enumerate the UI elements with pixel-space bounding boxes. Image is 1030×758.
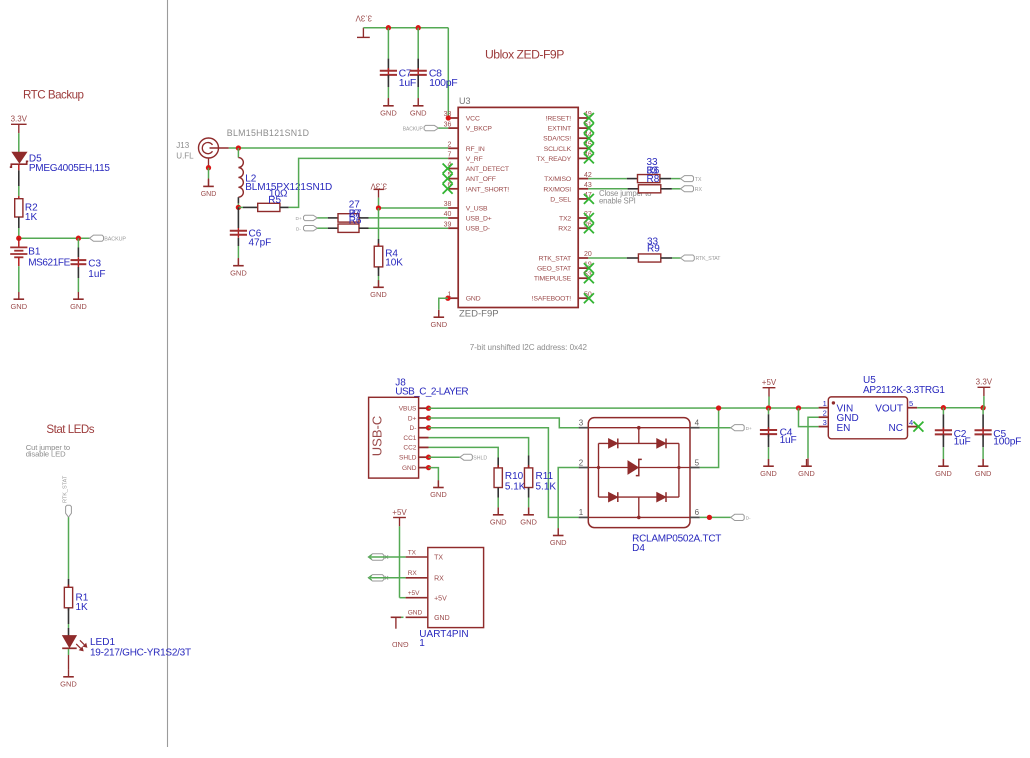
label C7 1uF bbox=[399, 67, 416, 88]
U5 pin 4 NC bbox=[889, 418, 924, 434]
svg-text:D+: D+ bbox=[746, 426, 752, 432]
diode D4b bbox=[657, 439, 666, 449]
svg-text:GND: GND bbox=[230, 268, 247, 277]
U3 pin 39 USB_D- bbox=[444, 221, 490, 232]
label RTK_STAT flag text bbox=[696, 256, 722, 262]
wire LED1 to GND bbox=[68, 649, 70, 670]
svg-text:RTC Backup: RTC Backup bbox=[23, 88, 84, 101]
svg-text:!SAFEBOOT!: !SAFEBOOT! bbox=[532, 296, 572, 303]
TVS diode D4 center bbox=[628, 459, 642, 475]
wire C3 to GND bbox=[77, 267, 79, 292]
inductor L2 bbox=[238, 158, 243, 198]
svg-text:USB_C_2-LAYER: USB_C_2-LAYER bbox=[395, 387, 468, 398]
junction top rail at C7 bbox=[386, 25, 391, 30]
U3 pin 2 RF_IN bbox=[447, 142, 484, 153]
label ZED-F9P bbox=[459, 308, 499, 319]
flag BACKUP (RTC) bbox=[90, 235, 104, 241]
ground under C3 bbox=[70, 292, 87, 311]
label RTK_STAT vertical flag text bbox=[63, 475, 69, 503]
svg-text:U.FL: U.FL bbox=[176, 151, 194, 160]
flag BACKUP (U3) bbox=[424, 125, 438, 130]
U3 pin 49 !RESET! bbox=[546, 111, 594, 123]
label 27 R7 R6 stack bbox=[349, 200, 362, 227]
UART pin TX bbox=[406, 549, 444, 561]
svg-text:USB_D-: USB_D- bbox=[466, 226, 490, 233]
junction RF_IN at L2 bbox=[236, 145, 241, 150]
svg-text:5.1K: 5.1K bbox=[536, 481, 557, 492]
svg-text:+5V: +5V bbox=[408, 590, 420, 597]
svg-text:1uF: 1uF bbox=[954, 437, 971, 448]
wire R10 to GND bbox=[497, 488, 499, 515]
svg-text:RX: RX bbox=[408, 570, 418, 577]
svg-text:ZED-F9P: ZED-F9P bbox=[459, 308, 499, 319]
svg-text:TX_READY: TX_READY bbox=[536, 156, 571, 163]
U3 pin 5 ANT_OFF bbox=[443, 172, 496, 184]
junction top rail at C8 bbox=[416, 25, 421, 30]
svg-text:LED1: LED1 bbox=[90, 637, 115, 648]
label SHLD flag text bbox=[473, 456, 487, 462]
junction VBUS at D4 bbox=[716, 405, 721, 410]
resistor R2 bbox=[15, 196, 23, 220]
U3 pin 7 V_RF bbox=[447, 152, 482, 163]
svg-text:J13: J13 bbox=[176, 141, 189, 150]
LED LED1 bbox=[62, 636, 87, 652]
J8 pin VBUS bbox=[399, 406, 431, 413]
svg-text:40: 40 bbox=[444, 211, 452, 218]
ground under B1 bbox=[10, 292, 27, 311]
label TX flag text bbox=[695, 177, 702, 183]
wire J13 shield to GND bbox=[208, 168, 210, 187]
UART pin +5V bbox=[406, 590, 447, 602]
wire RTK_STAT to R1 bbox=[68, 517, 70, 587]
U3 pin 53 TIMEPULSE bbox=[534, 271, 594, 283]
diode D4a bbox=[609, 439, 618, 449]
section title Stat LEDs bbox=[46, 423, 94, 436]
flag RTK_STAT (U3) bbox=[681, 255, 695, 261]
junction V_USB bbox=[376, 205, 381, 210]
wire D+ flag to R7 bbox=[317, 217, 338, 219]
svg-text:TX/MISO: TX/MISO bbox=[544, 176, 571, 183]
svg-text:ANT_DETECT: ANT_DETECT bbox=[466, 166, 509, 173]
capacitor C3 bbox=[71, 257, 87, 267]
label BLM15HB121SN1D bbox=[227, 128, 309, 138]
wire C3 branch upper bbox=[77, 238, 79, 257]
svg-text:GND: GND bbox=[430, 320, 447, 329]
svg-text:1uF: 1uF bbox=[88, 269, 105, 280]
svg-text:4: 4 bbox=[909, 418, 913, 427]
junction rail at C4 bbox=[766, 405, 771, 410]
junction VOUT at C5 bbox=[980, 405, 985, 410]
wire D4 pin6 to D- flag bbox=[700, 516, 731, 518]
wire C2 lower lead bbox=[942, 435, 944, 467]
svg-text:Stat LEDs: Stat LEDs bbox=[46, 423, 94, 436]
supply 3.3V (RTC) bbox=[11, 115, 28, 133]
svg-text:D+: D+ bbox=[296, 216, 302, 222]
wire +5V to UART bbox=[400, 526, 406, 597]
svg-text:C3: C3 bbox=[88, 259, 101, 270]
J8 pin CC1 bbox=[403, 435, 428, 442]
label D- flag text bbox=[296, 227, 301, 233]
U3 pin 19 GEO_STAT bbox=[537, 261, 594, 273]
svg-text:RX: RX bbox=[434, 575, 444, 582]
svg-text:disable LED: disable LED bbox=[26, 450, 66, 459]
label J13 U.FL bbox=[176, 141, 194, 160]
ground under R11 bbox=[520, 508, 537, 527]
junction VOUT at C2 bbox=[941, 405, 946, 410]
svg-text:42: 42 bbox=[584, 172, 592, 179]
label RX flag text bbox=[695, 187, 703, 193]
svg-text:EXTINT: EXTINT bbox=[548, 126, 571, 133]
U5 pin 3 EN bbox=[819, 418, 851, 434]
section title RTC Backup bbox=[23, 88, 84, 101]
wire R6 right to USB_D- bbox=[359, 227, 448, 229]
wire VOUT rail bbox=[917, 407, 983, 409]
flag D+ (to R7) bbox=[304, 215, 318, 220]
wire RF_IN net bbox=[229, 147, 448, 149]
svg-text:R6: R6 bbox=[349, 215, 362, 226]
svg-text:1K: 1K bbox=[76, 602, 89, 613]
vertical divider line between schematic sections bbox=[167, 0, 169, 747]
UART pin GND bbox=[406, 610, 450, 622]
resistor R10 bbox=[494, 465, 502, 490]
junction U3 GND pin bbox=[445, 296, 450, 301]
wire 3.3V top rail bbox=[363, 28, 448, 118]
D4 internal rails bbox=[588, 426, 690, 519]
wire CC1 to R11 bbox=[429, 438, 529, 468]
wire D- net bbox=[429, 428, 579, 518]
label R10 5.1K bbox=[505, 471, 526, 492]
svg-text:10K: 10K bbox=[385, 257, 403, 268]
U5 pin 2 GND bbox=[819, 408, 859, 424]
label D- right flag text bbox=[746, 516, 751, 522]
label LED1 value bbox=[90, 637, 191, 658]
svg-text:GND: GND bbox=[975, 469, 992, 478]
svg-text:R5: R5 bbox=[268, 195, 281, 206]
label J8 value bbox=[395, 387, 468, 398]
flag RX bbox=[681, 186, 694, 192]
label RCLAMP value bbox=[632, 533, 721, 554]
resistor R7 bbox=[338, 214, 359, 222]
ground under J8 bbox=[430, 480, 447, 499]
resistor R9 bbox=[638, 254, 660, 262]
svg-text:D4: D4 bbox=[632, 543, 645, 554]
svg-text:BLM15PX121SN1D: BLM15PX121SN1D bbox=[245, 182, 332, 193]
svg-text:+5V: +5V bbox=[434, 595, 447, 602]
wire D- flag to R6 bbox=[317, 227, 338, 229]
ground under C6 bbox=[230, 259, 247, 278]
label C5 100pF bbox=[993, 429, 1021, 448]
wire C5 lower lead bbox=[982, 435, 984, 467]
wire U3 GND to ground bbox=[439, 298, 448, 317]
svg-text:GND: GND bbox=[391, 640, 408, 649]
wire C7 lower lead bbox=[387, 75, 389, 106]
svg-text:SHLD: SHLD bbox=[399, 455, 417, 462]
svg-text:BLM15HB121SN1D: BLM15HB121SN1D bbox=[227, 128, 309, 138]
label C2 1uF bbox=[954, 429, 971, 448]
svg-text:BACKUP: BACKUP bbox=[403, 126, 424, 132]
label B1 MS621FE bbox=[28, 246, 70, 268]
svg-text:RCLAMP0502A.TCT: RCLAMP0502A.TCT bbox=[632, 533, 721, 544]
wire SHLD to flag bbox=[429, 456, 460, 458]
svg-text:1uF: 1uF bbox=[399, 77, 416, 89]
wire J8 GND to ground bbox=[429, 468, 439, 488]
svg-text:GND: GND bbox=[380, 108, 397, 117]
U5 pin 5 VOUT bbox=[875, 399, 917, 414]
resistor R6 bbox=[338, 224, 359, 232]
svg-text:SHLD: SHLD bbox=[473, 456, 487, 462]
J8 pin D+ bbox=[408, 415, 431, 422]
svg-text:D-: D- bbox=[296, 227, 301, 233]
resistor R5 bbox=[258, 203, 280, 211]
ground under D4 bbox=[550, 528, 567, 547]
wire TX flag to UART bbox=[369, 555, 406, 560]
U3 pin 43 RX/MOSI bbox=[543, 182, 592, 193]
svg-text:CC2: CC2 bbox=[403, 445, 416, 452]
svg-text:39: 39 bbox=[444, 221, 452, 228]
svg-text:SDA/!CS!: SDA/!CS! bbox=[543, 136, 571, 143]
svg-text:GND: GND bbox=[430, 490, 447, 499]
svg-text:+5V: +5V bbox=[392, 508, 407, 517]
wire 3.3V to D5 anode bbox=[18, 133, 20, 152]
ground under U3 bbox=[430, 310, 447, 329]
U3 pin 20 RTK_STAT bbox=[539, 251, 592, 262]
ground under U5 bbox=[798, 459, 815, 478]
svg-text:47pF: 47pF bbox=[249, 237, 272, 248]
svg-text:VCC: VCC bbox=[466, 116, 480, 123]
svg-text:7-bit unshifted I2C address: 0: 7-bit unshifted I2C address: 0x42 bbox=[470, 343, 588, 352]
D4 pin 1 bbox=[579, 508, 589, 517]
connector J8 USB-C body bbox=[369, 397, 419, 478]
capacitor C8 bbox=[410, 68, 427, 78]
junction D4 pin6 bbox=[707, 515, 712, 520]
wire BACKUP net horizontal bbox=[19, 237, 90, 239]
label R4 10K bbox=[385, 249, 403, 269]
wire R5 left lead bbox=[238, 206, 257, 208]
ground under LED1 bbox=[60, 670, 77, 689]
junction U3 VCC bbox=[446, 115, 451, 120]
ground under C7 bbox=[380, 99, 397, 118]
svg-text:TX2: TX2 bbox=[559, 216, 571, 223]
svg-text:3: 3 bbox=[823, 418, 827, 427]
junction at R2/B1 bbox=[16, 236, 21, 241]
resistor R8 (TX) bbox=[638, 175, 660, 183]
label R1 1K bbox=[76, 593, 89, 613]
ground under C4 bbox=[760, 459, 777, 478]
svg-text:3.3V: 3.3V bbox=[355, 14, 372, 23]
wire BACKUP flag to V_BKCP bbox=[438, 127, 448, 129]
svg-text:V_USB: V_USB bbox=[466, 206, 488, 213]
junction at C3 branch bbox=[76, 236, 81, 241]
svg-text:RX2: RX2 bbox=[558, 226, 571, 233]
wire R5 right to V_RF bbox=[280, 158, 448, 207]
ground under C8 bbox=[410, 99, 427, 118]
supply 3.3V inverted (top rail) bbox=[355, 14, 372, 38]
D4 pin 5 bbox=[690, 458, 700, 467]
svg-text:GND: GND bbox=[70, 302, 87, 311]
label D+ right flag text bbox=[746, 426, 752, 432]
resistor R11 bbox=[524, 465, 532, 490]
capacitor C2 bbox=[935, 428, 952, 438]
J8 pin CC2 bbox=[403, 445, 428, 452]
ground under R10 bbox=[490, 508, 507, 527]
U3 pin 44 SDA/!CS! bbox=[543, 131, 594, 143]
label BACKUP flag text U3 bbox=[403, 126, 424, 132]
wire junction to battery bbox=[18, 238, 20, 247]
svg-text:SCL/CLK: SCL/CLK bbox=[544, 146, 572, 153]
svg-text:V_RF: V_RF bbox=[466, 156, 483, 163]
svg-text:EN: EN bbox=[837, 423, 851, 434]
svg-text:3.3V: 3.3V bbox=[976, 378, 993, 387]
svg-text:GND: GND bbox=[550, 538, 567, 547]
svg-text:D_SEL: D_SEL bbox=[550, 196, 571, 203]
svg-text:RF_IN: RF_IN bbox=[466, 146, 485, 153]
svg-text:!ANT_SHORT!: !ANT_SHORT! bbox=[466, 186, 509, 193]
svg-text:AP2112K-3.3TRG1: AP2112K-3.3TRG1 bbox=[863, 385, 945, 396]
wire R7 right to USB_D+ bbox=[359, 217, 448, 219]
wire B1 to GND bbox=[18, 257, 20, 292]
label UART4PIN 1 bbox=[419, 629, 468, 649]
resistor R6 (RX) bbox=[638, 185, 660, 193]
connector UART body bbox=[428, 548, 484, 628]
wire C6 lower lead bbox=[237, 238, 239, 266]
svg-text:RTK_STAT: RTK_STAT bbox=[696, 256, 722, 262]
wire R11 to GND bbox=[528, 488, 530, 515]
flag D- (to R6) bbox=[304, 226, 318, 231]
label L2 value bbox=[245, 174, 332, 194]
svg-text:GND: GND bbox=[798, 469, 815, 478]
svg-text:D-: D- bbox=[410, 425, 417, 432]
U3 pin 47 D_SEL bbox=[550, 192, 594, 204]
wire EN branch bbox=[799, 408, 819, 427]
junction J13 shield bbox=[206, 165, 211, 170]
ground under R4 bbox=[370, 280, 387, 299]
U3 pin 38 V_USB bbox=[444, 201, 488, 212]
svg-text:GND: GND bbox=[410, 108, 427, 117]
label R2 1K bbox=[25, 202, 38, 223]
wire C4 upper lead bbox=[768, 408, 770, 430]
flag D- (right) bbox=[731, 514, 745, 520]
svg-text:R8: R8 bbox=[647, 174, 660, 185]
U3 pin 6 !ANT_SHORT! bbox=[443, 182, 510, 194]
svg-text:1: 1 bbox=[419, 638, 425, 649]
flag RX (UART) bbox=[368, 575, 388, 581]
svg-text:R9: R9 bbox=[647, 243, 660, 254]
svg-text:RTK_STAT: RTK_STAT bbox=[539, 256, 571, 263]
resistor R4 bbox=[374, 244, 383, 270]
D4 pin 2 bbox=[579, 458, 589, 467]
label 33 R9 bbox=[647, 237, 660, 255]
wire C6 upper lead bbox=[237, 207, 239, 228]
U3 pin 26 RX2 bbox=[558, 221, 594, 233]
svg-text:GND: GND bbox=[935, 469, 952, 478]
svg-text:GND: GND bbox=[60, 679, 77, 688]
wire VBUS branch to D4 pin5 bbox=[700, 408, 719, 468]
wire C8 lower lead bbox=[417, 75, 419, 106]
U3 pin 40 USB_D+ bbox=[444, 211, 492, 222]
junction rail at EN branch bbox=[796, 405, 801, 410]
svg-text:MS621FE: MS621FE bbox=[28, 257, 70, 268]
svg-text:D+: D+ bbox=[408, 415, 417, 422]
wire R8 to TX flag bbox=[660, 178, 681, 180]
svg-text:100pF: 100pF bbox=[993, 437, 1021, 448]
label I2C address note bbox=[470, 343, 588, 352]
svg-text:TX: TX bbox=[434, 555, 443, 562]
capacitor C5 bbox=[975, 428, 992, 438]
U3 pin 46 TX_READY bbox=[536, 152, 594, 164]
regulator U5 body bbox=[828, 397, 907, 439]
U5 pin 1 VIN bbox=[819, 399, 854, 414]
wire C5 upper lead bbox=[982, 408, 984, 431]
diode D4c bbox=[609, 492, 618, 502]
svg-text:GND: GND bbox=[201, 191, 217, 198]
svg-text:enable SPI: enable SPI bbox=[599, 197, 636, 206]
svg-text:GND: GND bbox=[370, 290, 387, 299]
wire V_USB to R4 bbox=[378, 208, 380, 246]
svg-text:TIMEPULSE: TIMEPULSE bbox=[534, 276, 572, 283]
supply +5V (UART) bbox=[392, 508, 407, 526]
svg-text:PMEG4005EH,115: PMEG4005EH,115 bbox=[29, 163, 110, 174]
svg-text:5: 5 bbox=[909, 399, 913, 408]
svg-text:6: 6 bbox=[695, 508, 700, 517]
wire C4 lower lead bbox=[768, 434, 770, 466]
D4 pin 3 bbox=[579, 419, 589, 428]
svg-text:1: 1 bbox=[579, 508, 584, 517]
capacitor C4 bbox=[760, 427, 777, 437]
svg-text:NC: NC bbox=[889, 423, 903, 434]
title Ublox ZED-F9P bbox=[485, 47, 564, 61]
svg-text:!RESET!: !RESET! bbox=[546, 116, 572, 123]
U3 pin 4 ANT_DETECT bbox=[443, 162, 509, 174]
wire RTK_STAT to R9 bbox=[588, 257, 638, 259]
svg-text:Ublox ZED-F9P: Ublox ZED-F9P bbox=[485, 47, 564, 61]
svg-text:GND: GND bbox=[760, 469, 777, 478]
svg-text:38: 38 bbox=[444, 201, 452, 208]
svg-text:VBUS: VBUS bbox=[399, 406, 417, 413]
D4 pin 4 bbox=[690, 419, 700, 428]
svg-text:TX: TX bbox=[695, 177, 702, 183]
wire 3.3V to V_USB junction bbox=[378, 198, 380, 208]
svg-text:2: 2 bbox=[447, 142, 451, 149]
U3 pin 51 EXTINT bbox=[548, 121, 594, 133]
UART pin RX bbox=[406, 570, 445, 582]
U3 pin 1 GND bbox=[447, 291, 480, 302]
D4 pin 6 bbox=[690, 508, 700, 517]
label J8 name bbox=[395, 377, 406, 388]
wire L2 upper lead bbox=[237, 148, 239, 158]
label U3 bbox=[459, 96, 471, 106]
capacitor C7 bbox=[380, 68, 397, 78]
svg-text:GND: GND bbox=[466, 296, 481, 303]
svg-text:B1: B1 bbox=[28, 246, 41, 257]
flag D+ (right) bbox=[731, 425, 745, 431]
label C4 1uF bbox=[780, 427, 797, 446]
U3 pin 45 SCL/CLK bbox=[544, 142, 594, 154]
label C6 47pF bbox=[249, 229, 272, 249]
svg-text:D-: D- bbox=[746, 516, 751, 522]
svg-text:1uF: 1uF bbox=[780, 435, 797, 446]
svg-text:TX: TX bbox=[408, 549, 417, 556]
svg-text:RTK_STAT: RTK_STAT bbox=[63, 475, 69, 503]
U3 pin 42 TX/MISO bbox=[544, 172, 592, 183]
svg-text:GND: GND bbox=[434, 615, 450, 622]
note close jumper SPI bbox=[599, 189, 652, 205]
label R11 5.1K bbox=[536, 471, 557, 492]
svg-text:19-217/GHC-YR1S2/3T: 19-217/GHC-YR1S2/3T bbox=[90, 648, 191, 659]
supply +5V (reg) bbox=[762, 378, 777, 396]
junction L2/R5/C6 bbox=[236, 205, 241, 210]
svg-text:100pF: 100pF bbox=[429, 77, 457, 89]
wire TX/MISO to R8 bbox=[588, 178, 637, 180]
